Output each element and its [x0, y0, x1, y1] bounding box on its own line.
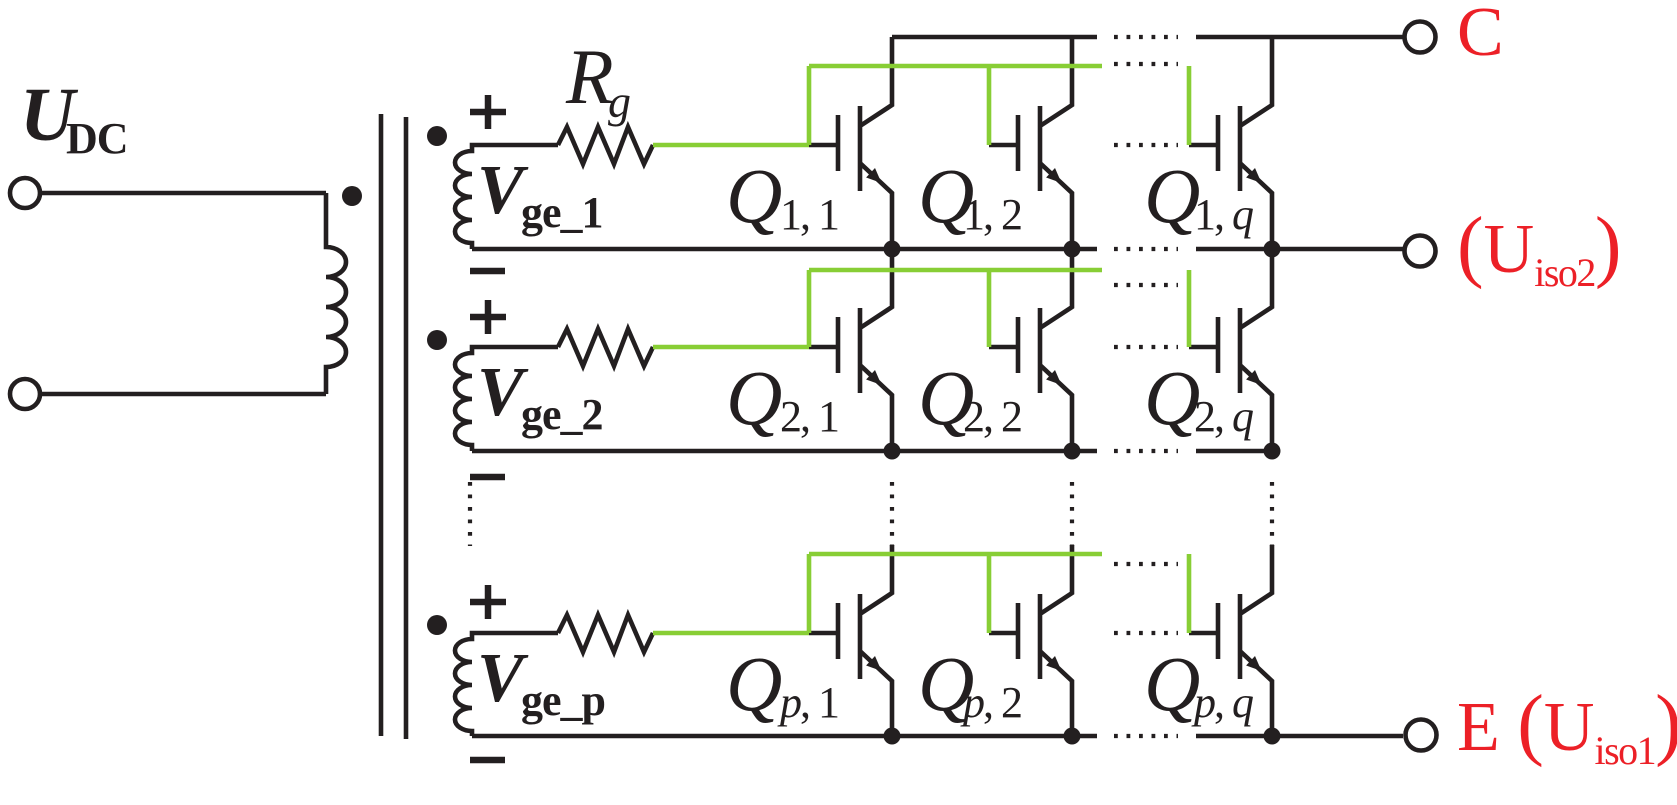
- emitter rail (row p): [472, 734, 1403, 739]
- minus sign (row 1): [470, 268, 505, 275]
- transistor Qp,1: [809, 545, 892, 736]
- transformer core line 1: [379, 114, 384, 736]
- vertical dotted continuation (rows 2..p): [470, 482, 1272, 546]
- green gate bus (row p): [809, 554, 1189, 633]
- terminal U_iso2: [1405, 236, 1436, 267]
- resistor Rg (row 1): [558, 127, 653, 164]
- junction node Q2,2 emitter: [1064, 443, 1081, 460]
- svg-text:2, 2: 2, 2: [963, 392, 1021, 441]
- dotted continuation collector rail: [1114, 35, 1178, 39]
- secondary polarity dot (row p): [427, 615, 447, 635]
- svg-text:ge_p: ge_p: [521, 676, 605, 725]
- primary polarity dot: [342, 186, 362, 206]
- green gate wire from Rg (row p): [653, 631, 809, 636]
- secondary winding V_ge_p: [455, 633, 558, 736]
- transistor Q2,q: [1189, 249, 1272, 451]
- resistor Rg (row p): [558, 615, 653, 652]
- svg-text:C: C: [1457, 0, 1504, 71]
- secondary winding V_ge_2: [455, 347, 558, 451]
- svg-text:Q: Q: [1144, 152, 1200, 239]
- plus sign (row 1): [470, 95, 506, 129]
- junction node Qp,1 emitter: [884, 728, 901, 745]
- transistor Q2,1: [809, 249, 892, 451]
- svg-text:Q: Q: [726, 354, 782, 441]
- dotted continuation (row 1): [1114, 64, 1178, 249]
- collector rail C: [892, 35, 1403, 40]
- junction node Q1,1 emitter: [884, 241, 901, 258]
- minus sign (row p): [470, 757, 505, 764]
- transistor Qp,2: [989, 545, 1072, 736]
- secondary polarity dot (row 2): [427, 330, 447, 350]
- secondary winding V_ge_1: [455, 145, 558, 249]
- green gate bus (row 1): [809, 66, 1189, 145]
- plus sign (row p): [470, 585, 506, 619]
- svg-text:1, 1: 1, 1: [780, 190, 838, 239]
- svg-text:1, q: 1, q: [1194, 190, 1253, 239]
- transistor Qp,q: [1189, 545, 1272, 736]
- svg-text:Q: Q: [726, 640, 782, 727]
- terminal C: [1405, 22, 1436, 53]
- transformer primary winding: [326, 193, 346, 394]
- emitter rail (row 2): [472, 449, 1272, 454]
- svg-text:1, 2: 1, 2: [963, 190, 1021, 239]
- transistor Q2,2: [989, 249, 1072, 451]
- junction node Qp,2 emitter: [1064, 728, 1081, 745]
- svg-text:Q: Q: [1144, 640, 1200, 727]
- svg-text:p, 1: p, 1: [777, 678, 838, 727]
- transistor Q1,1: [809, 37, 892, 249]
- green gate wire from Rg (row 2): [653, 345, 809, 350]
- junction node Q2,q emitter: [1264, 443, 1281, 460]
- junction node Q2,1 emitter: [884, 443, 901, 460]
- terminal: U_DC positive input: [10, 178, 40, 208]
- junction node Q1,q emitter: [1264, 241, 1281, 258]
- plus sign (row 2): [470, 300, 506, 334]
- transistor Q1,2: [989, 37, 1072, 249]
- svg-text:DC: DC: [66, 114, 128, 163]
- svg-text:2, q: 2, q: [1194, 392, 1253, 441]
- junction node Q1,2 emitter: [1064, 241, 1081, 258]
- svg-text:p, q: p, q: [1191, 678, 1253, 727]
- svg-text:Q: Q: [726, 152, 782, 239]
- dotted continuation (row 2): [1114, 285, 1178, 451]
- wire: top input to primary: [40, 191, 326, 196]
- transformer core line 2: [404, 117, 409, 739]
- green gate bus (row 2): [809, 270, 1189, 347]
- green gate wire from Rg (row 1): [653, 143, 809, 148]
- secondary polarity dot (row 1): [427, 126, 447, 146]
- svg-text:p, 2: p, 2: [960, 678, 1021, 727]
- svg-text:R: R: [565, 33, 614, 120]
- wire: bottom input to primary: [40, 392, 326, 397]
- junction node Qp,q emitter: [1264, 728, 1281, 745]
- svg-text:Q: Q: [1144, 354, 1200, 441]
- transistor Q1,q: [1189, 37, 1272, 249]
- svg-text:ge_2: ge_2: [521, 390, 603, 439]
- minus sign (row 2): [470, 474, 505, 481]
- svg-text:g: g: [608, 76, 631, 127]
- svg-text:ge_1: ge_1: [521, 188, 603, 237]
- dotted continuation (row p): [1114, 564, 1178, 736]
- terminal E / U_iso1: [1406, 720, 1437, 751]
- emitter rail (row 1): [472, 247, 1403, 252]
- resistor Rg (row 2): [558, 329, 653, 366]
- terminal: U_DC negative input: [10, 379, 40, 409]
- svg-text:2, 1: 2, 1: [780, 392, 838, 441]
